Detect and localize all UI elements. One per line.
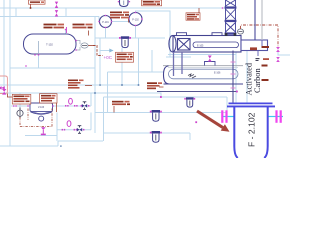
activated carbon duct	[232, 51, 234, 104]
small vertical vessel top center	[120, 0, 129, 7]
red connector to L1 label	[7, 94, 13, 98]
wire trough area x=152	[151, 50, 153, 72]
filter2 on y=133	[150, 131, 162, 142]
wire drop x=57	[56, 113, 58, 142]
support tower with X bracing	[226, 0, 236, 36]
relief valve magenta at line end	[276, 47, 280, 52]
wire station2 line y=129.7	[57, 129, 91, 131]
magenta vent valve right area	[276, 57, 280, 62]
piping network light blue	[0, 0, 290, 146]
label block S center	[116, 52, 134, 62]
wire short riser x=16	[15, 8, 17, 17]
wire drop x=107.5	[107, 72, 109, 113]
wire branch riser x=66	[65, 8, 67, 17]
trough bottom	[164, 83, 244, 85]
vent valve on trough top	[205, 56, 216, 66]
F-2.102 lid	[229, 102, 273, 104]
level gauge at tank	[77, 41, 94, 51]
svg-text:T-102: T-102	[46, 43, 53, 47]
wire filter line y=38	[95, 37, 165, 39]
node below filter3	[195, 121, 197, 123]
flange pair left of F-2.102	[221, 110, 282, 123]
wire branch y=68	[10, 67, 95, 69]
wire second header y=16.5	[0, 16, 99, 18]
rotary dryer main shell	[169, 36, 241, 53]
wire left riser x=10	[9, 0, 11, 146]
svg-text:F - 2.102: F - 2.102	[246, 112, 256, 147]
magenta nodes	[13, 1, 223, 107]
vertical line pair right of tower	[254, 0, 256, 40]
label block D pump	[110, 12, 129, 23]
wire under dryer y=54.5	[168, 54, 236, 56]
wire line y=112 to filter1	[95, 112, 227, 114]
dryer support legs	[173, 52, 175, 76]
connector arrows	[0, 86, 5, 89]
label block M at trough	[147, 82, 162, 89]
wire main riser x=95	[94, 17, 96, 134]
wire main header y=8	[0, 7, 225, 9]
label block B above tank	[44, 24, 65, 29]
label block L1 lower left	[12, 94, 31, 104]
wire station1 riser x=91	[90, 93, 92, 106]
duct tick marks	[231, 62, 236, 88]
wire arrow branch y=50.5	[100, 50, 110, 52]
dryer top nozzle 1	[177, 33, 187, 36]
label block C above tank	[73, 24, 93, 36]
trough left head	[164, 66, 169, 84]
wire duct line x=236	[235, 51, 237, 104]
dryer inner capsule	[193, 42, 239, 48]
wire pump2 discharge down	[135, 26, 137, 39]
wire stub y=135.5	[25, 135, 57, 137]
wire left riser x=4	[3, 0, 5, 89]
wire tank bottom drain x=38	[38, 55, 40, 68]
wire drop x=138.5	[138, 38, 140, 85]
trough inner capsule	[169, 69, 239, 79]
small dark mark	[256, 58, 260, 61]
quench trough under dryer	[157, 66, 243, 92]
svg-text:V-103: V-103	[38, 106, 45, 109]
flow station 2	[62, 121, 85, 134]
trough lower pipe	[157, 91, 237, 93]
tower feet	[225, 33, 228, 36]
magenta tick between labels	[66, 27, 68, 33]
dryer drive box with X	[178, 39, 191, 51]
svg-text:P-102: P-102	[132, 18, 139, 21]
filter3 on y=104.5	[184, 97, 195, 107]
wire instrument drop x=20	[19, 93, 21, 110]
red connector from label G	[85, 85, 92, 87]
wire drop x=190	[189, 133, 191, 140]
svg-text:+0C: +0C	[104, 55, 113, 60]
trough grey top rail	[163, 65, 243, 67]
wire F-2.102 left nozzle	[222, 116, 234, 118]
wire header y=85	[0, 84, 139, 86]
inline filter on y=38 line	[119, 36, 131, 47]
filter F-2.102	[227, 103, 275, 158]
red tick below label N	[113, 106, 115, 113]
horizontal tank T-101	[24, 34, 77, 54]
dryer discharge chute	[241, 40, 268, 51]
wire branch x=100	[99, 38, 101, 85]
wire box line y=97	[104, 96, 228, 98]
label block A top	[29, 0, 46, 9]
small red labels right duct	[250, 46, 269, 81]
instrument circle on x=20	[17, 108, 23, 119]
wire pump2 top line to x=170	[136, 11, 171, 57]
hanger curve	[31, 112, 53, 114]
trough end dot	[236, 91, 238, 93]
label block G mid-left	[68, 80, 84, 89]
wire box riser x=227	[226, 97, 228, 113]
wire header y=93	[0, 93, 161, 97]
valve on left riser	[2, 89, 6, 95]
annotation arrow	[197, 111, 230, 132]
wavy level marks	[188, 74, 196, 78]
wire under dryer y=57	[166, 56, 191, 58]
label block F top center	[142, 0, 162, 6]
pump P-102	[129, 13, 142, 26]
red connector from label M	[159, 86, 164, 88]
red stub from gauge	[88, 45, 93, 47]
tank internal dip line	[38, 41, 40, 53]
node at line y=97 left end	[160, 96, 162, 98]
red connector from L3 label	[56, 103, 58, 113]
small vessel V with hanger bottom left	[30, 103, 53, 121]
F-2.102 shell	[234, 106, 238, 158]
filter1 on y=112	[150, 110, 162, 121]
wire tank top feed x=65	[65, 29, 67, 35]
red dash loop under vessel	[20, 109, 52, 127]
svg-text:E-105: E-105	[197, 44, 204, 47]
wire station2 riser x=91	[90, 113, 92, 130]
label block E near tower	[186, 8, 200, 20]
cyan pipes into F-2.102	[222, 116, 283, 118]
wire pump1 discharge down	[105, 28, 107, 39]
wire vessel line y=106	[11, 105, 91, 107]
wire F-2.102 right nozzle	[268, 116, 283, 118]
wire bottom line y=141	[58, 140, 103, 142]
valve on header y=8	[55, 2, 58, 8]
relief valve under red line	[41, 127, 46, 135]
wire drop x=122	[121, 48, 123, 85]
label block N bottom center	[112, 101, 130, 105]
svg-text:E-106: E-106	[214, 72, 221, 75]
gate valve with actuator	[82, 102, 87, 110]
instrument bubble at tower base	[238, 29, 244, 34]
wire bottom header y=146	[0, 145, 58, 147]
wire trough feed y=72	[108, 71, 164, 73]
wire vent line right y=55	[278, 52, 290, 55]
wire line y=133 to filter2	[103, 132, 190, 134]
pump P-101	[100, 16, 112, 28]
wire step x=58	[57, 141, 59, 146]
wire pump suction y=21.5	[99, 17, 129, 22]
dryer left dished head	[169, 36, 176, 52]
valve on header y=16.5	[55, 10, 58, 16]
blue junction nodes	[60, 84, 139, 147]
light blue arrowhead	[109, 49, 113, 53]
label block L3 with border	[40, 94, 58, 103]
red signal line to V06	[93, 46, 103, 56]
pink offpage connector	[0, 76, 7, 94]
svg-text:Carbon: Carbon	[253, 68, 262, 93]
wire drop x=103.5	[103, 97, 105, 141]
svg-text:P-101: P-101	[102, 21, 109, 24]
wire duct line x=247	[246, 51, 248, 104]
dryer top nozzle 2	[212, 33, 222, 36]
flow station 1	[65, 98, 89, 109]
red dash-dot signal line to relief valve	[241, 25, 279, 47]
